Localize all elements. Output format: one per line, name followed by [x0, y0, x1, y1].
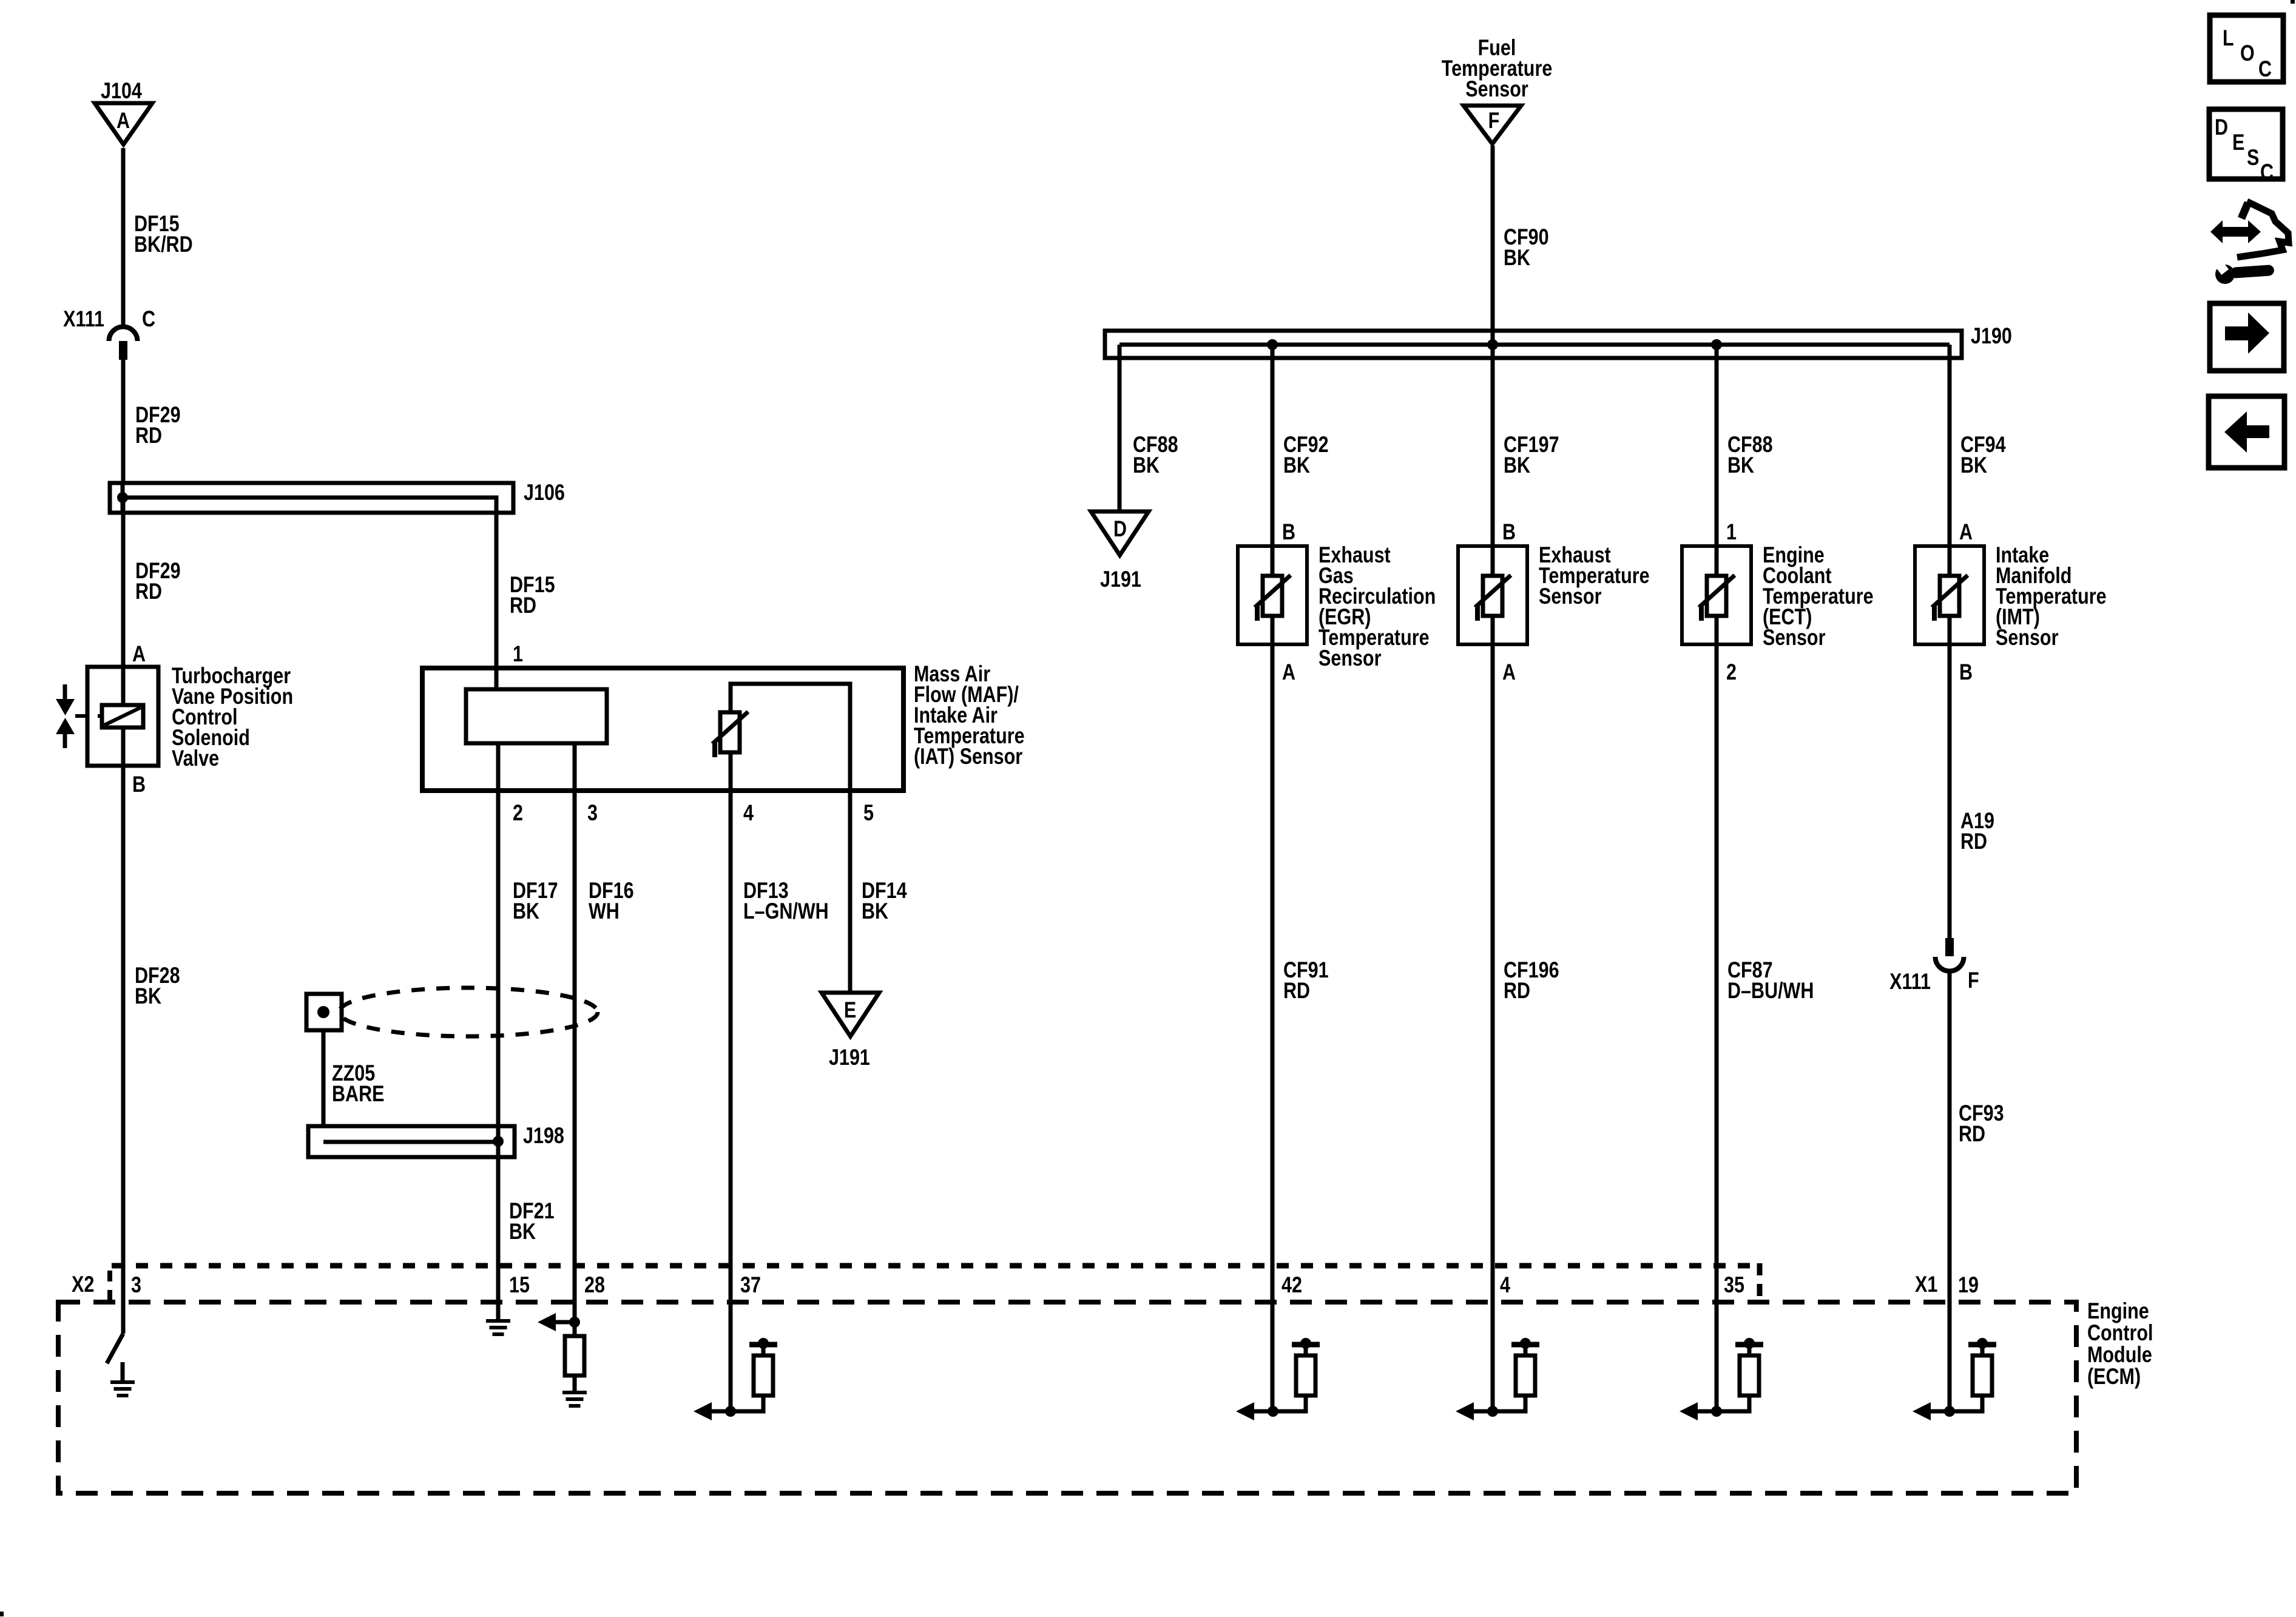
wire DF16 WH from MAF pin 3 to ECM pin 28 — [575, 743, 634, 1322]
svg-text:BK: BK — [1504, 453, 1531, 478]
svg-text:15: 15 — [509, 1272, 530, 1297]
svg-text:D–BU/WH: D–BU/WH — [1727, 978, 1814, 1003]
svg-text:C: C — [2258, 56, 2272, 81]
svg-text:A: A — [1959, 519, 1973, 544]
MAF pin number labels — [513, 800, 874, 825]
exhaust temperature sensor — [1458, 542, 1650, 644]
wire DF28 BK from solenoid valve pin B to ECM X2-3 — [123, 766, 180, 1334]
svg-text:BK: BK — [1283, 453, 1311, 478]
svg-text:RD: RD — [135, 579, 162, 604]
svg-text:4: 4 — [743, 800, 754, 825]
sidebar icon: back arrow box — [2209, 396, 2284, 468]
svg-text:E: E — [2232, 130, 2244, 155]
label: Mass Air Flow (MAF)/Intake Air Temperature (IAT) Sensor — [914, 661, 1025, 769]
wire DF13 L-GN/WH from MAF pin 4 to ECM pin 37 — [731, 752, 829, 1411]
svg-text:19: 19 — [1958, 1272, 1979, 1297]
svg-text:RD: RD — [1959, 1121, 1985, 1146]
wire CF197 BK from J190 to exhaust temperature sensor — [1493, 358, 1559, 546]
sidebar icon: harness repair (arrows and wrench) — [2210, 201, 2289, 284]
wire DF21 BK from J198 to ECM pin 15 — [498, 1157, 555, 1321]
svg-text:X2: X2 — [72, 1272, 94, 1297]
svg-text:C: C — [142, 306, 155, 331]
svg-text:Sensor: Sensor — [1996, 625, 2058, 650]
svg-text:BK/RD: BK/RD — [134, 232, 193, 257]
svg-text:A: A — [132, 641, 146, 666]
svg-text:A: A — [1502, 660, 1516, 684]
svg-text:RD: RD — [1283, 978, 1310, 1003]
turbocharger vane position control solenoid valve — [87, 667, 158, 766]
svg-text:WH: WH — [589, 899, 620, 923]
ECM internal pull-up resistor and signal arrow, pin 4 — [1456, 1338, 1539, 1420]
svg-text:37: 37 — [740, 1272, 761, 1297]
svg-text:BK: BK — [135, 984, 162, 1008]
svg-text:4: 4 — [1500, 1272, 1510, 1297]
svg-text:BK: BK — [1960, 453, 1988, 478]
svg-text:2: 2 — [1726, 660, 1737, 684]
svg-text:5: 5 — [863, 800, 874, 825]
svg-text:C: C — [2260, 160, 2274, 184]
svg-text:X111: X111 — [1889, 969, 1931, 994]
svg-text:L: L — [2223, 25, 2234, 50]
svg-text:O: O — [2240, 41, 2255, 66]
svg-text:B: B — [132, 772, 146, 797]
svg-text:J198: J198 — [523, 1123, 564, 1148]
svg-text:D: D — [2215, 115, 2228, 140]
wire CF87 from engine coolant temperature (ECT) sensor to ECM — [1717, 644, 1814, 1411]
splice symbol J104 (triangle A) with label — [95, 78, 152, 144]
connector X2 pin row dotted line — [110, 1263, 1760, 1302]
svg-text:L–GN/WH: L–GN/WH — [743, 899, 829, 923]
svg-text:X1: X1 — [1915, 1272, 1937, 1297]
svg-text:28: 28 — [584, 1272, 605, 1297]
label: Fuel Temperature Sensor — [1442, 35, 1553, 101]
ECM internal pull-up resistor and signal arrow, pin 19 — [1913, 1338, 1996, 1420]
ECM internal ground at pin 15 — [486, 1321, 510, 1334]
ground splice J191 (triangle D) — [1091, 511, 1149, 592]
svg-text:3: 3 — [131, 1272, 141, 1297]
valve actuator arrows (solenoid valve symbol) — [56, 684, 103, 748]
wire CF88 BK from J190 to engine coolant temperature (ECT) sensor — [1717, 358, 1773, 546]
IAT thermistor inside MAF — [712, 684, 850, 791]
svg-text:A: A — [1282, 660, 1295, 684]
svg-text:RD: RD — [510, 593, 536, 618]
svg-text:J106: J106 — [524, 480, 565, 505]
svg-text:(IAT) Sensor: (IAT) Sensor — [914, 744, 1022, 769]
wire DF14 BK from MAF pin 5 to ground splice J191 E — [850, 791, 907, 993]
svg-text:RD: RD — [135, 423, 162, 448]
svg-text:42: 42 — [1281, 1272, 1302, 1297]
shield dashed ellipse — [339, 988, 598, 1036]
label: Engine Control Module (ECM) — [2087, 1298, 2153, 1389]
svg-text:J191: J191 — [1100, 567, 1141, 592]
sidebar icon: DESC box — [2209, 109, 2283, 185]
splice pack J106 bus — [110, 480, 565, 513]
svg-text:A: A — [116, 108, 130, 133]
ECM internal circuit at pin 28: signal arrow, resistor to ground — [538, 1313, 587, 1406]
svg-text:BK: BK — [1727, 453, 1755, 478]
ECM internal pull-up resistor and signal arrow, pin 37 — [694, 1338, 777, 1420]
wire CF93 RD from X111 F to ECM X1-19 — [1950, 971, 2004, 1414]
svg-text:F: F — [1488, 108, 1500, 133]
wire CF88 BK from J190 to ground splice J191 D — [1119, 345, 1178, 511]
svg-text:RD: RD — [1960, 829, 1987, 854]
svg-text:BK: BK — [862, 899, 889, 923]
wire DF15 BK/RD from J104 to X111 pin C — [123, 148, 193, 326]
wire DF29 RD from J106 to solenoid valve pin A — [123, 498, 181, 667]
fuel temperature sensor splice triangle F — [1464, 106, 1521, 144]
svg-text:BK: BK — [1504, 245, 1531, 270]
wire CF91 from exhaust gas recirculation (EGR) temperature sensor to ECM — [1272, 644, 1329, 1411]
svg-text:(ECM): (ECM) — [2087, 1364, 2141, 1389]
svg-text:Sensor: Sensor — [1763, 625, 1825, 650]
ECM internal pull-up resistor and signal arrow, pin 35 — [1680, 1338, 1763, 1420]
splice pack J198 bus — [308, 1123, 564, 1157]
svg-text:F: F — [1968, 968, 1979, 993]
svg-text:X111: X111 — [63, 306, 104, 331]
shield drain connection square — [306, 994, 342, 1030]
svg-text:BARE: BARE — [332, 1081, 384, 1106]
exhaust gas recirculation (EGR) temperature sensor — [1238, 542, 1436, 670]
wire CF94 BK from J190 to intake manifold temperature (IMT) sensor — [1950, 358, 2006, 546]
inline connector X111 pin F — [1889, 938, 1979, 994]
svg-text:S: S — [2247, 145, 2259, 170]
connector and pin labels X2 3 15 28 37 42 4 35 X1 19 — [72, 1272, 1979, 1297]
ECM internal pull-up resistor and signal arrow, pin 42 — [1236, 1338, 1320, 1420]
svg-text:Sensor: Sensor — [1465, 76, 1528, 101]
svg-text:B: B — [1282, 519, 1295, 544]
sidebar icon: forward arrow box — [2210, 303, 2284, 371]
svg-text:J190: J190 — [1971, 323, 2012, 348]
svg-text:BK: BK — [509, 1219, 536, 1244]
svg-text:2: 2 — [513, 800, 523, 825]
svg-text:B: B — [1959, 660, 1973, 684]
svg-text:J104: J104 — [101, 78, 142, 103]
svg-text:RD: RD — [1504, 978, 1530, 1003]
svg-text:B: B — [1502, 519, 1516, 544]
wire CF196 from exhaust temperature sensor to ECM — [1493, 644, 1559, 1411]
svg-text:35: 35 — [1724, 1272, 1744, 1297]
wire CF90 BK from F to splice pack J190 — [1493, 146, 1549, 345]
svg-text:J191: J191 — [829, 1045, 870, 1070]
wire A19 RD from IMT pin B to X111 pin F — [1950, 644, 1994, 938]
engine control module (ECM) dashed box — [58, 1302, 2076, 1493]
wire CF92 BK from J190 to exhaust gas recirculation (EGR) temperature sensor — [1272, 358, 1329, 546]
svg-text:Sensor: Sensor — [1319, 646, 1381, 670]
wire DF29 RD from X111 C to splice J106 — [123, 360, 181, 485]
svg-text:E: E — [844, 998, 856, 1022]
svg-text:BK: BK — [1133, 453, 1160, 478]
svg-text:Valve: Valve — [172, 746, 219, 771]
mass air flow (MAF) / intake air temperature (IAT) sensor box — [422, 668, 903, 791]
svg-text:D: D — [1113, 516, 1127, 541]
intake manifold temperature (IMT) sensor — [1915, 542, 2107, 650]
label: Turbocharger Vane Position Control Solenoid Valve — [172, 663, 293, 771]
wire DF15 RD from J106 to MAF pin 1 — [496, 513, 555, 689]
ECM internal switch to ground at pin 3 — [107, 1334, 135, 1396]
svg-text:3: 3 — [587, 800, 598, 825]
engine coolant temperature (ECT) sensor — [1682, 542, 1874, 650]
splice pack J190 bus — [1105, 323, 2012, 358]
svg-text:1: 1 — [513, 641, 523, 666]
wire ZZ05 BARE shield drain to J198 — [323, 1030, 384, 1142]
ground splice J191 (triangle E) — [822, 993, 879, 1070]
svg-text:1: 1 — [1726, 519, 1737, 544]
svg-text:BK: BK — [513, 899, 540, 923]
svg-text:Sensor: Sensor — [1539, 584, 1601, 609]
wire DF17 BK from MAF pin 2 to shield splice J198 — [498, 743, 558, 1142]
inline connector X111 pin C — [63, 306, 155, 360]
sidebar icon: LOC box — [2210, 15, 2283, 82]
